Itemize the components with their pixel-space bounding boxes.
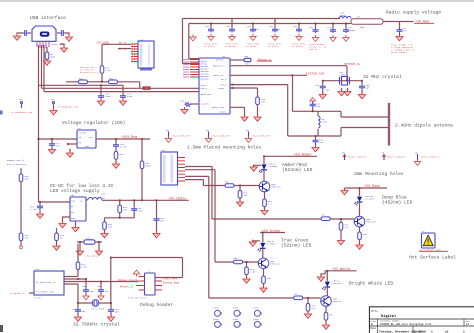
svg-text:HOLE_15mm_PTH: HOLE_15mm_PTH xyxy=(253,135,271,138)
svg-text:Radio supply voltage: Radio supply voltage xyxy=(386,10,441,16)
svg-text:J4x: J4x xyxy=(139,39,144,42)
LED D2 green xyxy=(262,233,264,243)
wire RF to antenna (down) xyxy=(292,75,294,111)
svg-text:MMBT-B: MMBT-B xyxy=(333,300,342,303)
LED D1 amber xyxy=(263,156,265,164)
svg-text:USB_N: USB_N xyxy=(201,87,208,90)
inline pill LNB xyxy=(244,58,251,61)
svg-text:AUDIO6: AUDIO6 xyxy=(201,78,210,81)
svg-text:HOLE_3.0mm_NPL: HOLE_3.0mm_NPL xyxy=(348,156,367,159)
svg-text:Title: Title xyxy=(371,310,379,313)
wire fan pin5 to deep blue rail xyxy=(185,167,212,220)
svg-text:C0x: C0x xyxy=(226,25,231,28)
ground (below R52) xyxy=(264,207,266,210)
svg-text:LED voltage supply: LED voltage supply xyxy=(50,188,100,194)
svg-text:R69: R69 xyxy=(109,78,114,81)
transistor Q1 amber driver xyxy=(259,181,270,192)
MCU left magenta pins xyxy=(190,60,199,78)
svg-text:MMBT-xx: MMBT-xx xyxy=(272,186,282,189)
svg-text:3.6nH: 3.6nH xyxy=(321,121,328,124)
svg-text:(452nm) LED: (452nm) LED xyxy=(382,200,413,206)
resistor R59 white base xyxy=(294,296,303,300)
svg-text:Reset_b: Reset_b xyxy=(120,285,133,289)
wire LDO input xyxy=(39,138,78,140)
transistor Q3 deep blue driver xyxy=(354,216,365,227)
svg-text:3pF: 3pF xyxy=(115,311,120,314)
svg-text:30m: 30m xyxy=(360,26,365,29)
svg-text:+5V4 (4R)+: +5V4 (4R)+ xyxy=(85,255,99,258)
capacitor C24 decoupling row1 xyxy=(274,19,276,28)
ground (below C26) xyxy=(181,107,188,114)
svg-text:GND: GND xyxy=(71,217,76,220)
svg-text:30nH: 30nH xyxy=(340,14,346,17)
svg-text:1.5mm Plated mounting holes: 1.5mm Plated mounting holes xyxy=(187,145,262,151)
wire LED to Q3 xyxy=(359,202,361,216)
USB pin stubs xyxy=(37,42,49,48)
svg-text:SC-70: SC-70 xyxy=(34,297,41,300)
transistor Q2 green driver xyxy=(258,258,269,269)
ground (below C27) xyxy=(322,90,324,94)
wire feedback node xyxy=(105,217,135,219)
svg-text:LT-G6SP: LT-G6SP xyxy=(267,243,277,246)
svg-text:150pF: 150pF xyxy=(349,29,356,32)
wire +5V horizontal branch xyxy=(66,82,140,89)
svg-text:FIDx: FIDx xyxy=(233,307,239,310)
svg-text:TP_Handshake_SWD: TP_Handshake_SWD xyxy=(57,106,79,109)
wire USB D- vertical xyxy=(43,45,45,92)
ground (below C10) xyxy=(97,99,104,106)
wire LED to Q2 xyxy=(262,249,264,259)
svg-text:xpF: xpF xyxy=(366,87,371,90)
svg-text:1uF: 1uF xyxy=(319,141,324,144)
capacitor C11 decoupling xyxy=(122,85,124,94)
wire fan pin8 to amber base xyxy=(185,180,221,186)
resistor R22 inline vertical xyxy=(100,66,104,74)
capacitor C20 3pF xyxy=(110,303,112,308)
ground (amber LED return) xyxy=(254,165,261,166)
ground (below C34) xyxy=(315,144,317,147)
IC U6 left stub xyxy=(29,292,34,294)
svg-text:FIDx: FIDx xyxy=(254,318,260,321)
resistor R44 1k xyxy=(56,228,58,233)
svg-text:1.1uH: 1.1uH xyxy=(98,197,105,200)
svg-text:1.8k: 1.8k xyxy=(106,69,112,72)
svg-text:+5V_Green: +5V_Green xyxy=(262,229,280,234)
wire D+ horizontal to MCU xyxy=(39,84,123,86)
ground (below R54) xyxy=(246,275,248,278)
svg-text:32MHz: 32MHz xyxy=(339,74,346,77)
svg-text:C0x: C0x xyxy=(293,25,298,28)
ferrite bead FB1 on D- line xyxy=(143,86,151,90)
ground (below C16) xyxy=(156,222,158,233)
ground (below C28) xyxy=(361,90,363,94)
svg-text:ATTINY-12 V1_3: ATTINY-12 V1_3 xyxy=(80,71,99,74)
ground (below C32) xyxy=(399,33,401,36)
svg-text:E75 is mounted: E75 is mounted xyxy=(7,163,26,166)
capacitor C22 decoupling row1 xyxy=(231,19,233,28)
wire USB D+ vertical xyxy=(41,45,43,88)
antenna arm upper xyxy=(341,116,388,118)
wire DC-DC input xyxy=(39,201,71,203)
svg-text:C4D: C4D xyxy=(82,285,87,288)
resistor R57 deep pulldown xyxy=(340,219,342,223)
wire to R41 xyxy=(141,139,143,161)
svg-text:Voltage regulator (LDO): Voltage regulator (LDO) xyxy=(62,120,125,126)
svg-text:12: 12 xyxy=(466,323,470,326)
inductor L31 pill xyxy=(351,19,383,25)
capacitor C19 3pF xyxy=(77,303,79,308)
resistor R52 amber emitter xyxy=(264,192,266,199)
svg-text:L3x: L3x xyxy=(356,16,361,19)
svg-text:LNB: LNB xyxy=(244,55,249,58)
J3 right pin stubs xyxy=(178,158,186,182)
ground (deep LED return) xyxy=(344,188,346,190)
svg-text:+3V3_Ref: +3V3_Ref xyxy=(163,277,178,281)
ground (DCDC gnd bottom) xyxy=(75,221,77,226)
ground (below TP4) xyxy=(50,108,57,115)
svg-text:of: of xyxy=(445,330,449,333)
svg-text:FIDx: FIDx xyxy=(233,318,239,321)
svg-text:LUW-xxx: LUW-xxx xyxy=(333,282,343,285)
svg-text:R6x: R6x xyxy=(267,277,272,280)
svg-text:MMBT-xx: MMBT-xx xyxy=(271,263,281,266)
wire R45 to IC xyxy=(77,270,79,277)
resistor R43 feedback xyxy=(104,218,106,222)
ground (below C14) xyxy=(39,210,41,214)
svg-text:C0x: C0x xyxy=(205,25,210,28)
svg-text:APPOUT: APPOUT xyxy=(216,59,225,62)
svg-text:to plane: to plane xyxy=(225,45,236,48)
svg-text:C6x: C6x xyxy=(180,100,185,103)
svg-text:R6x: R6x xyxy=(225,181,230,184)
svg-text:560R: 560R xyxy=(146,165,152,168)
wire VBUS vertical long xyxy=(38,45,40,202)
svg-text:+5V_White: +5V_White xyxy=(332,267,350,272)
svg-text:SCLK/PL: SCLK/PL xyxy=(201,103,211,106)
svg-text:SYSTEM_32M: SYSTEM_32M xyxy=(306,73,324,76)
svg-text:TPx: TPx xyxy=(51,98,56,101)
svg-text:J3x: J3x xyxy=(161,149,166,152)
wire SYSTEM_32M xyxy=(230,74,307,76)
left edge blue mark xyxy=(0,111,3,115)
ground (below R8) xyxy=(43,59,50,66)
diode D30 row xyxy=(77,241,102,243)
svg-text:VIN: VIN xyxy=(71,200,76,203)
capacitor C16 on rail xyxy=(156,200,158,217)
svg-text:HOLE_3.0mm_NPL: HOLE_3.0mm_NPL xyxy=(388,156,407,159)
svg-text:RADIO_USB: RADIO_USB xyxy=(212,106,225,109)
svg-text:1.8k: 1.8k xyxy=(250,271,256,274)
transistor Q4 white driver xyxy=(321,296,332,307)
open arrow below C18 xyxy=(100,293,102,295)
resistor R45 1.5k xyxy=(77,244,79,262)
wire LED supply rail xyxy=(102,199,189,201)
svg-text:3pF: 3pF xyxy=(82,310,87,313)
svg-text:Bright White LED: Bright White LED xyxy=(349,281,393,287)
power rail outer xyxy=(183,19,341,64)
svg-text:C4x: C4x xyxy=(86,237,91,240)
capacitor C23 decoupling row1 xyxy=(252,24,254,28)
svg-text:TPx: TPx xyxy=(19,98,24,101)
op-amp U4 LDO regulator xyxy=(77,130,96,148)
title block frame xyxy=(369,307,474,333)
ground (below R61) xyxy=(325,320,327,324)
wire debug loop top xyxy=(111,258,183,278)
ground (below R51) xyxy=(239,198,241,201)
svg-text:Remove R76 if: Remove R76 if xyxy=(7,159,25,162)
resistor R8 pulldown on data line xyxy=(46,47,48,52)
ground (below RADIO_USB) xyxy=(241,115,248,122)
wire D- horizontal to MCU xyxy=(42,87,200,89)
svg-text:LA-G6SP: LA-G6SP xyxy=(269,165,279,168)
wire crystal rail 32MHz xyxy=(323,80,362,82)
capacitor C1 (left of USB) xyxy=(28,32,31,34)
ground (left of USB) xyxy=(13,34,20,41)
svg-text:Debug_Swd: Debug_Swd xyxy=(163,281,179,285)
wire LED to Q4 xyxy=(326,287,328,296)
ground (below R44) xyxy=(56,241,58,245)
capacitor C29 radio rail a xyxy=(315,24,317,29)
svg-text:FIDx: FIDx xyxy=(254,307,260,310)
power rail inner xyxy=(189,24,351,59)
svg-text:+5V_Amber: +5V_Amber xyxy=(294,153,312,158)
open arrow below C17 xyxy=(85,293,87,295)
svg-text:FIDx: FIDx xyxy=(214,318,220,321)
wire radio supply xyxy=(383,21,414,23)
svg-text:PS_*RESET*_OUT: PS_*RESET*_OUT xyxy=(36,291,55,294)
connector J3 I/O xyxy=(161,152,178,185)
resistor R41 560R xyxy=(140,161,144,169)
svg-text:Date: Date xyxy=(371,327,377,330)
resistor R77 10k xyxy=(19,233,23,241)
resistor R76 xyxy=(20,168,22,174)
wire green +5V xyxy=(260,232,285,234)
svg-text:1uF: 1uF xyxy=(316,105,321,108)
magenta pin labels xyxy=(183,59,189,60)
svg-text:2.7: 2.7 xyxy=(268,203,273,206)
IC U6 right pin wires xyxy=(64,277,139,285)
ground (green LED return) xyxy=(253,240,260,243)
text under J4 xyxy=(140,69,152,71)
LED D3 deep blue xyxy=(359,188,361,196)
power symbol antenna feed xyxy=(310,97,316,103)
svg-text:10uF: 10uF xyxy=(138,210,144,213)
svg-text:1uF: 1uF xyxy=(105,290,110,293)
ground (below C20) xyxy=(110,313,112,316)
capacitor C12 at LDO input xyxy=(51,139,53,142)
debug header right pins xyxy=(155,281,162,290)
svg-text:U3x: U3x xyxy=(35,268,40,271)
svg-text:R6x: R6x xyxy=(363,233,368,236)
svg-text:C2x: C2x xyxy=(315,84,320,87)
ground (right of USB) xyxy=(65,35,72,42)
svg-text:R6?: R6? xyxy=(330,314,335,317)
ground (LDO GND pin) xyxy=(69,149,71,153)
wire junction dots xyxy=(38,23,363,304)
svg-text:1uF: 1uF xyxy=(56,145,61,148)
svg-text:C7x: C7x xyxy=(327,26,332,29)
svg-text:C0x: C0x xyxy=(269,25,274,28)
capacitor C34 below loop xyxy=(315,136,317,139)
ground (right of D30) xyxy=(98,242,100,250)
svg-text:and 19: and 19 xyxy=(309,48,318,51)
wire deep blue base rail xyxy=(212,218,354,220)
svg-text:U5x: U5x xyxy=(71,194,76,197)
resistor R69 (series) xyxy=(109,80,118,84)
svg-text:TLV70x: TLV70x xyxy=(79,132,88,135)
capacitor C30 radio rail b xyxy=(332,24,334,29)
ground (below C11) xyxy=(119,99,126,106)
ground (DCDC gnd left) xyxy=(63,217,71,222)
resistor R60 white pulldown xyxy=(307,298,309,304)
svg-text:47pF: 47pF xyxy=(105,95,111,98)
svg-text:28ms: 28ms xyxy=(50,56,56,59)
bottom-left corner mark xyxy=(0,325,3,332)
wire deep +5V xyxy=(345,187,388,189)
svg-text:X3 32.768k: X3 32.768k xyxy=(91,308,105,311)
wire APPOUT xyxy=(230,59,244,61)
inductor L32 inside loop xyxy=(317,111,319,136)
svg-text:1uF: 1uF xyxy=(90,290,95,293)
resistor R30 T48 xyxy=(257,88,259,97)
capacitor C33 antenna feed xyxy=(312,101,314,103)
inductor L30 xyxy=(339,17,351,19)
wire crystal to debug rail xyxy=(110,258,112,304)
svg-text:RADIO_V2: RADIO_V2 xyxy=(213,74,224,77)
connector J4 header xyxy=(138,41,154,68)
ground (below R30) xyxy=(257,105,259,116)
capacitor C26 at MCU bottom left xyxy=(190,103,199,105)
svg-text:Digital: Digital xyxy=(381,314,397,319)
svg-text:47pF: 47pF xyxy=(127,95,133,98)
IC U5 DC-DC converter xyxy=(70,197,86,221)
svg-text:LD-CQ7P: LD-CQ7P xyxy=(365,198,375,201)
wire fan pin7 to white rail xyxy=(185,176,209,298)
wire SYSTEM_32 to crystal xyxy=(230,66,347,81)
wire LDO EN stub xyxy=(68,143,77,145)
wire below R76 xyxy=(20,182,22,233)
svg-text:28m: 28m xyxy=(245,63,250,66)
wire PSENS xyxy=(230,87,258,89)
svg-text:SYSTEM_3x: SYSTEM_3x xyxy=(344,63,360,66)
svg-text:to plane: to plane xyxy=(204,45,215,48)
svg-text:RF_P: RF_P xyxy=(221,78,227,81)
pin stubs of J4 with x marks xyxy=(131,44,138,62)
svg-text:OUT: OUT xyxy=(89,136,94,139)
ground (below C19) xyxy=(77,313,79,316)
svg-text:+5V_Deep: +5V_Deep xyxy=(364,185,380,189)
svg-text:FIDx: FIDx xyxy=(214,307,220,310)
svg-text:1.8: 1.8 xyxy=(345,226,350,229)
capacitor C17 (32k osc) xyxy=(85,279,87,288)
capacitor C27 crystal left xyxy=(322,81,324,85)
ground (below R58) xyxy=(359,240,361,244)
wire +5V from USB right xyxy=(102,44,131,82)
wire R41 down to LED rail xyxy=(141,169,143,201)
svg-text:Hot Surface Label: Hot Surface Label xyxy=(409,255,456,261)
svg-text:PS_RESET_In: PS_RESET_In xyxy=(10,292,25,295)
svg-text:1.8: 1.8 xyxy=(312,307,317,310)
wire white base rail xyxy=(209,297,321,299)
ground (below R55) xyxy=(263,284,265,287)
resistor R42 on rail xyxy=(119,200,121,205)
svg-text:+3V_Rad: +3V_Rad xyxy=(415,20,429,25)
antenna bar (dipole element) xyxy=(388,103,390,146)
svg-text:(624nm) LED: (624nm) LED xyxy=(282,167,313,173)
open arrow (debug pin1) xyxy=(133,270,139,277)
svg-text:RADIO_1V: RADIO_1V xyxy=(213,65,224,68)
wire amber +5V xyxy=(264,155,317,157)
svg-text:+3V_LEDxx: +3V_LEDxx xyxy=(168,198,186,202)
svg-text:+3V3_Reg: +3V3_Reg xyxy=(121,136,137,140)
svg-text:L30: L30 xyxy=(101,193,106,196)
svg-text:7nF: 7nF xyxy=(403,30,408,33)
svg-text:HOLE_3.0mm_PTH: HOLE_3.0mm_PTH xyxy=(421,156,440,159)
IC U7 hot surface label xyxy=(422,233,436,248)
resistor R40 below C13 xyxy=(115,148,117,152)
resistor R54 green pulldown xyxy=(246,262,248,267)
ground small left xyxy=(190,35,196,42)
svg-text:Debug_clock: Debug_clock xyxy=(118,278,138,282)
capacitor C21 decoupling row1 xyxy=(210,24,212,28)
debug header left pins xyxy=(136,277,145,291)
top gray strip xyxy=(0,0,474,2)
svg-text:to plane: to plane xyxy=(292,45,303,48)
svg-text:MMBT-xx: MMBT-xx xyxy=(367,221,377,224)
svg-text:GND: GND xyxy=(85,145,90,148)
svg-text:xpF: xpF xyxy=(326,89,331,92)
svg-text:Sheet: Sheet xyxy=(414,330,423,333)
ground (below R43) xyxy=(104,230,106,233)
svg-text:HOLE_15mm_PTH: HOLE_15mm_PTH xyxy=(173,135,191,138)
wire RF_N xyxy=(230,85,341,136)
pad below R77 xyxy=(20,241,22,246)
svg-text:3mm Mounting holes: 3mm Mounting holes xyxy=(354,171,404,177)
svg-text:R68: R68 xyxy=(79,78,84,81)
capacitor C15 on rail xyxy=(133,200,135,207)
svg-text:+5V_USB: +5V_USB xyxy=(96,41,109,44)
IC U1 radio MCU xyxy=(199,58,230,114)
svg-text:PS_HOLD/CTRL_SC: PS_HOLD/CTRL_SC xyxy=(36,281,56,284)
antenna arm lower xyxy=(341,127,388,129)
USB logo glyph xyxy=(40,32,50,37)
wire RADIO_USB xyxy=(230,107,245,116)
svg-text:Debug header: Debug header xyxy=(140,302,173,308)
wire LED to Q1 xyxy=(263,170,265,181)
svg-text:10k: 10k xyxy=(244,194,249,197)
svg-text:to plane: to plane xyxy=(268,45,279,48)
svg-text:D-_A: D-_A xyxy=(119,48,126,51)
ground (left of D30) xyxy=(79,242,81,250)
svg-text:C4D: C4D xyxy=(97,285,102,288)
ground (crystal case 2) xyxy=(347,88,349,91)
resistor R61 white emitter xyxy=(325,306,327,312)
svg-text:10k: 10k xyxy=(25,237,30,240)
inductor L5 xyxy=(86,199,88,201)
capacitor C32 bulk xyxy=(399,22,401,29)
wire amber base xyxy=(221,185,260,187)
antenna matching loop xyxy=(293,111,342,136)
wire green base xyxy=(215,261,258,263)
svg-text:to plane: to plane xyxy=(246,45,257,48)
wire fan pin6 to green rail xyxy=(185,170,215,262)
svg-text:R6x: R6x xyxy=(234,257,239,260)
svg-text:10k: 10k xyxy=(123,209,128,212)
resistor R51 amber pulldown xyxy=(239,186,241,191)
svg-text:LGxxx: LGxxx xyxy=(219,111,226,114)
svg-text:10k: 10k xyxy=(25,178,30,181)
ground (below R57) xyxy=(340,230,342,239)
